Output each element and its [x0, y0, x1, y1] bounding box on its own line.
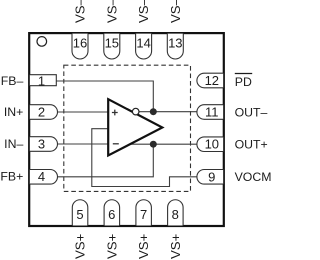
svg-text:VS+: VS+ — [168, 233, 183, 259]
inverting output bubble — [132, 108, 139, 115]
svg-text:16: 16 — [73, 36, 87, 51]
svg-text:11: 11 — [205, 105, 219, 120]
svg-text:VS–: VS– — [136, 0, 151, 23]
wire FB+ feedback (pin 4 to OUT+ node) — [57, 144, 153, 177]
pin 2 (IN+) — [30, 104, 58, 119]
pin 6 (VS+) — [104, 200, 120, 226]
pin 8 (VS+) — [168, 200, 184, 226]
svg-text:VS+: VS+ — [136, 233, 151, 259]
svg-text:IN–: IN– — [4, 137, 23, 151]
pin 13 (VS-) — [167, 34, 183, 59]
pin 11 (OUT-) — [197, 105, 223, 120]
wire VOCM (pin 9 to op-amp common-mode input) — [92, 129, 198, 187]
wire OUT- (bubble to pin 11) — [132, 111, 198, 113]
svg-text:10: 10 — [205, 137, 219, 152]
pin 14 (VS-) — [136, 34, 152, 59]
pin 4 (FB+) — [30, 169, 58, 184]
op-amp U1 triangle — [108, 99, 162, 155]
op-amp + input sign — [112, 110, 118, 116]
dashed internal boundary — [64, 65, 191, 191]
wire OUT+ (op-amp lower output to pin 10) — [128, 143, 198, 145]
svg-text:VOCM: VOCM — [235, 170, 272, 184]
svg-text:VS+: VS+ — [73, 233, 88, 259]
svg-text:OUT+: OUT+ — [235, 138, 268, 152]
svg-text:FB+: FB+ — [0, 170, 23, 184]
svg-text:IN+: IN+ — [4, 105, 23, 119]
svg-text:VS–: VS– — [73, 0, 88, 23]
svg-text:9: 9 — [208, 169, 215, 184]
svg-text:FB–: FB– — [1, 74, 24, 88]
pin 15 (VS-) — [104, 34, 120, 59]
pin 1 (FB-) — [30, 73, 57, 88]
pin 3 (IN-) — [30, 136, 58, 151]
svg-text:15: 15 — [105, 36, 119, 51]
wire IN- (pin 3 to op-amp - input) — [57, 143, 108, 145]
wire FB- feedback (pin 1 to OUT- node) — [56, 81, 153, 112]
wire IN+ (pin 2 to op-amp + input) — [57, 111, 108, 113]
svg-text:VS–: VS– — [168, 0, 183, 23]
svg-text:2: 2 — [38, 104, 45, 119]
svg-text:13: 13 — [168, 36, 182, 51]
pin 9 (VOCM) — [197, 169, 223, 184]
label PD overline (pin 12) — [235, 73, 252, 75]
svg-text:4: 4 — [38, 169, 45, 184]
svg-text:VS+: VS+ — [104, 233, 119, 259]
pin 7 (VS+) — [136, 200, 152, 226]
pin 1 indicator circle — [37, 37, 47, 47]
svg-text:7: 7 — [140, 207, 147, 222]
svg-text:VS–: VS– — [104, 0, 119, 23]
svg-text:PD: PD — [235, 75, 252, 89]
junction node OUT- — [150, 108, 157, 115]
pin 12 (PD) — [197, 73, 223, 88]
IC package outline U1 — [29, 33, 224, 226]
junction node OUT+ — [150, 141, 157, 148]
svg-text:14: 14 — [136, 36, 150, 51]
svg-text:1: 1 — [38, 73, 45, 88]
svg-text:12: 12 — [205, 73, 219, 88]
op-amp - input sign — [113, 143, 119, 145]
svg-text:OUT–: OUT– — [235, 105, 268, 119]
svg-text:6: 6 — [108, 207, 115, 222]
svg-text:8: 8 — [172, 207, 179, 222]
svg-text:3: 3 — [38, 136, 45, 151]
pin 16 (VS-) — [72, 34, 88, 59]
pin 5 (VS+) — [72, 200, 88, 226]
svg-text:5: 5 — [76, 207, 83, 222]
pin 10 (OUT+) — [197, 137, 223, 152]
